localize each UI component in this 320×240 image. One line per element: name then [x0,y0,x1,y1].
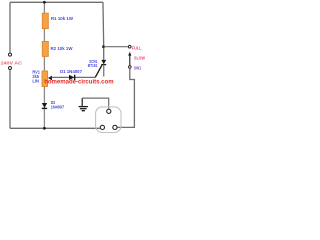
svg-text:LIN: LIN [32,78,39,83]
wire gate horizontal [52,76,96,78]
diode D1 cathode bar [74,75,76,80]
svg-text:SW1: SW1 [134,65,142,70]
resistor R2 [42,41,48,56]
wire resistor branch vertical [43,2,45,128]
switch SW1 blade [129,56,131,66]
node junction SCR-switch [102,45,105,48]
terminal 240V AC live [9,53,12,56]
svg-text:SLOW: SLOW [134,56,146,61]
SCR1 cathode lead [103,65,105,77]
svg-text:BT151: BT151 [88,63,98,68]
node junction top [43,1,46,4]
socket earth pin [107,109,111,113]
potentiometer RV1 [42,71,48,87]
SCR1 triangle [101,60,106,64]
wire ground to earth pin [82,98,109,109]
node junction bottom [43,127,46,130]
terminal SW1 [129,66,132,69]
diode D2 cathode bar [42,107,47,109]
wire to FULL terminal [104,46,129,48]
ground [79,98,88,111]
svg-text:FULL: FULL [132,46,142,51]
svg-text:R1 10k 1W: R1 10k 1W [51,16,74,21]
diode D2 triangle [42,103,47,108]
socket outline [96,107,121,133]
diode D1 triangle [69,75,74,80]
socket left pin [100,125,104,129]
svg-text:1N4007: 1N4007 [51,105,65,110]
svg-text:R2 10k 1W: R2 10k 1W [51,46,74,51]
wire left vertical upper [9,2,11,53]
terminal 240V AC neutral [9,67,12,70]
svg-text:D1 1N4007: D1 1N4007 [60,69,83,74]
wire top bus [10,1,103,3]
wire SCR anode vertical [102,2,105,60]
SCR1 gate lead [95,65,102,77]
wire SW1 to socket right pin [118,69,135,128]
wire bottom bus [10,127,100,129]
terminal FULL [128,45,131,48]
SCR1 cathode bar [101,64,106,66]
socket right pin [113,125,117,129]
svg-text:240V AC: 240V AC [1,61,23,66]
wire left vertical lower [9,70,11,129]
switch SW1 blade arrow [128,52,131,56]
svg-text:homemade-circuits.com: homemade-circuits.com [44,78,114,85]
resistor R1 [42,13,48,28]
potentiometer RV1 wiper arrow [48,76,52,81]
